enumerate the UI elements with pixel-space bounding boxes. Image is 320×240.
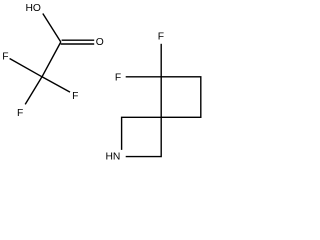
svg-text:F: F	[2, 52, 8, 63]
bond C2-F top-left	[10, 59, 42, 77]
svg-text:O: O	[96, 37, 104, 48]
azetidine bonds: spiro to C3' to N (right edge then bottom edge)	[126, 117, 162, 156]
cyclobutane ring (square)	[161, 77, 201, 118]
svg-text:F: F	[72, 91, 78, 102]
bond C1-C2	[42, 42, 61, 77]
bond C2-F right	[42, 77, 70, 92]
bond HO-C1	[43, 14, 61, 43]
bond F-C6 horizontal	[126, 76, 162, 78]
azetidine bonds: spiro to C1' to N (top edge then left edge)	[122, 117, 162, 150]
svg-text:F: F	[115, 72, 121, 83]
svg-text:HN: HN	[105, 152, 120, 163]
double bond C1=O lower line	[61, 43, 94, 45]
bond C2-F bottom	[25, 77, 42, 105]
svg-text:F: F	[17, 108, 23, 119]
double bond C1=O upper line	[62, 39, 95, 41]
svg-text:HO: HO	[25, 3, 40, 14]
svg-text:F: F	[158, 32, 164, 43]
bond F-C6 vertical	[160, 44, 162, 77]
